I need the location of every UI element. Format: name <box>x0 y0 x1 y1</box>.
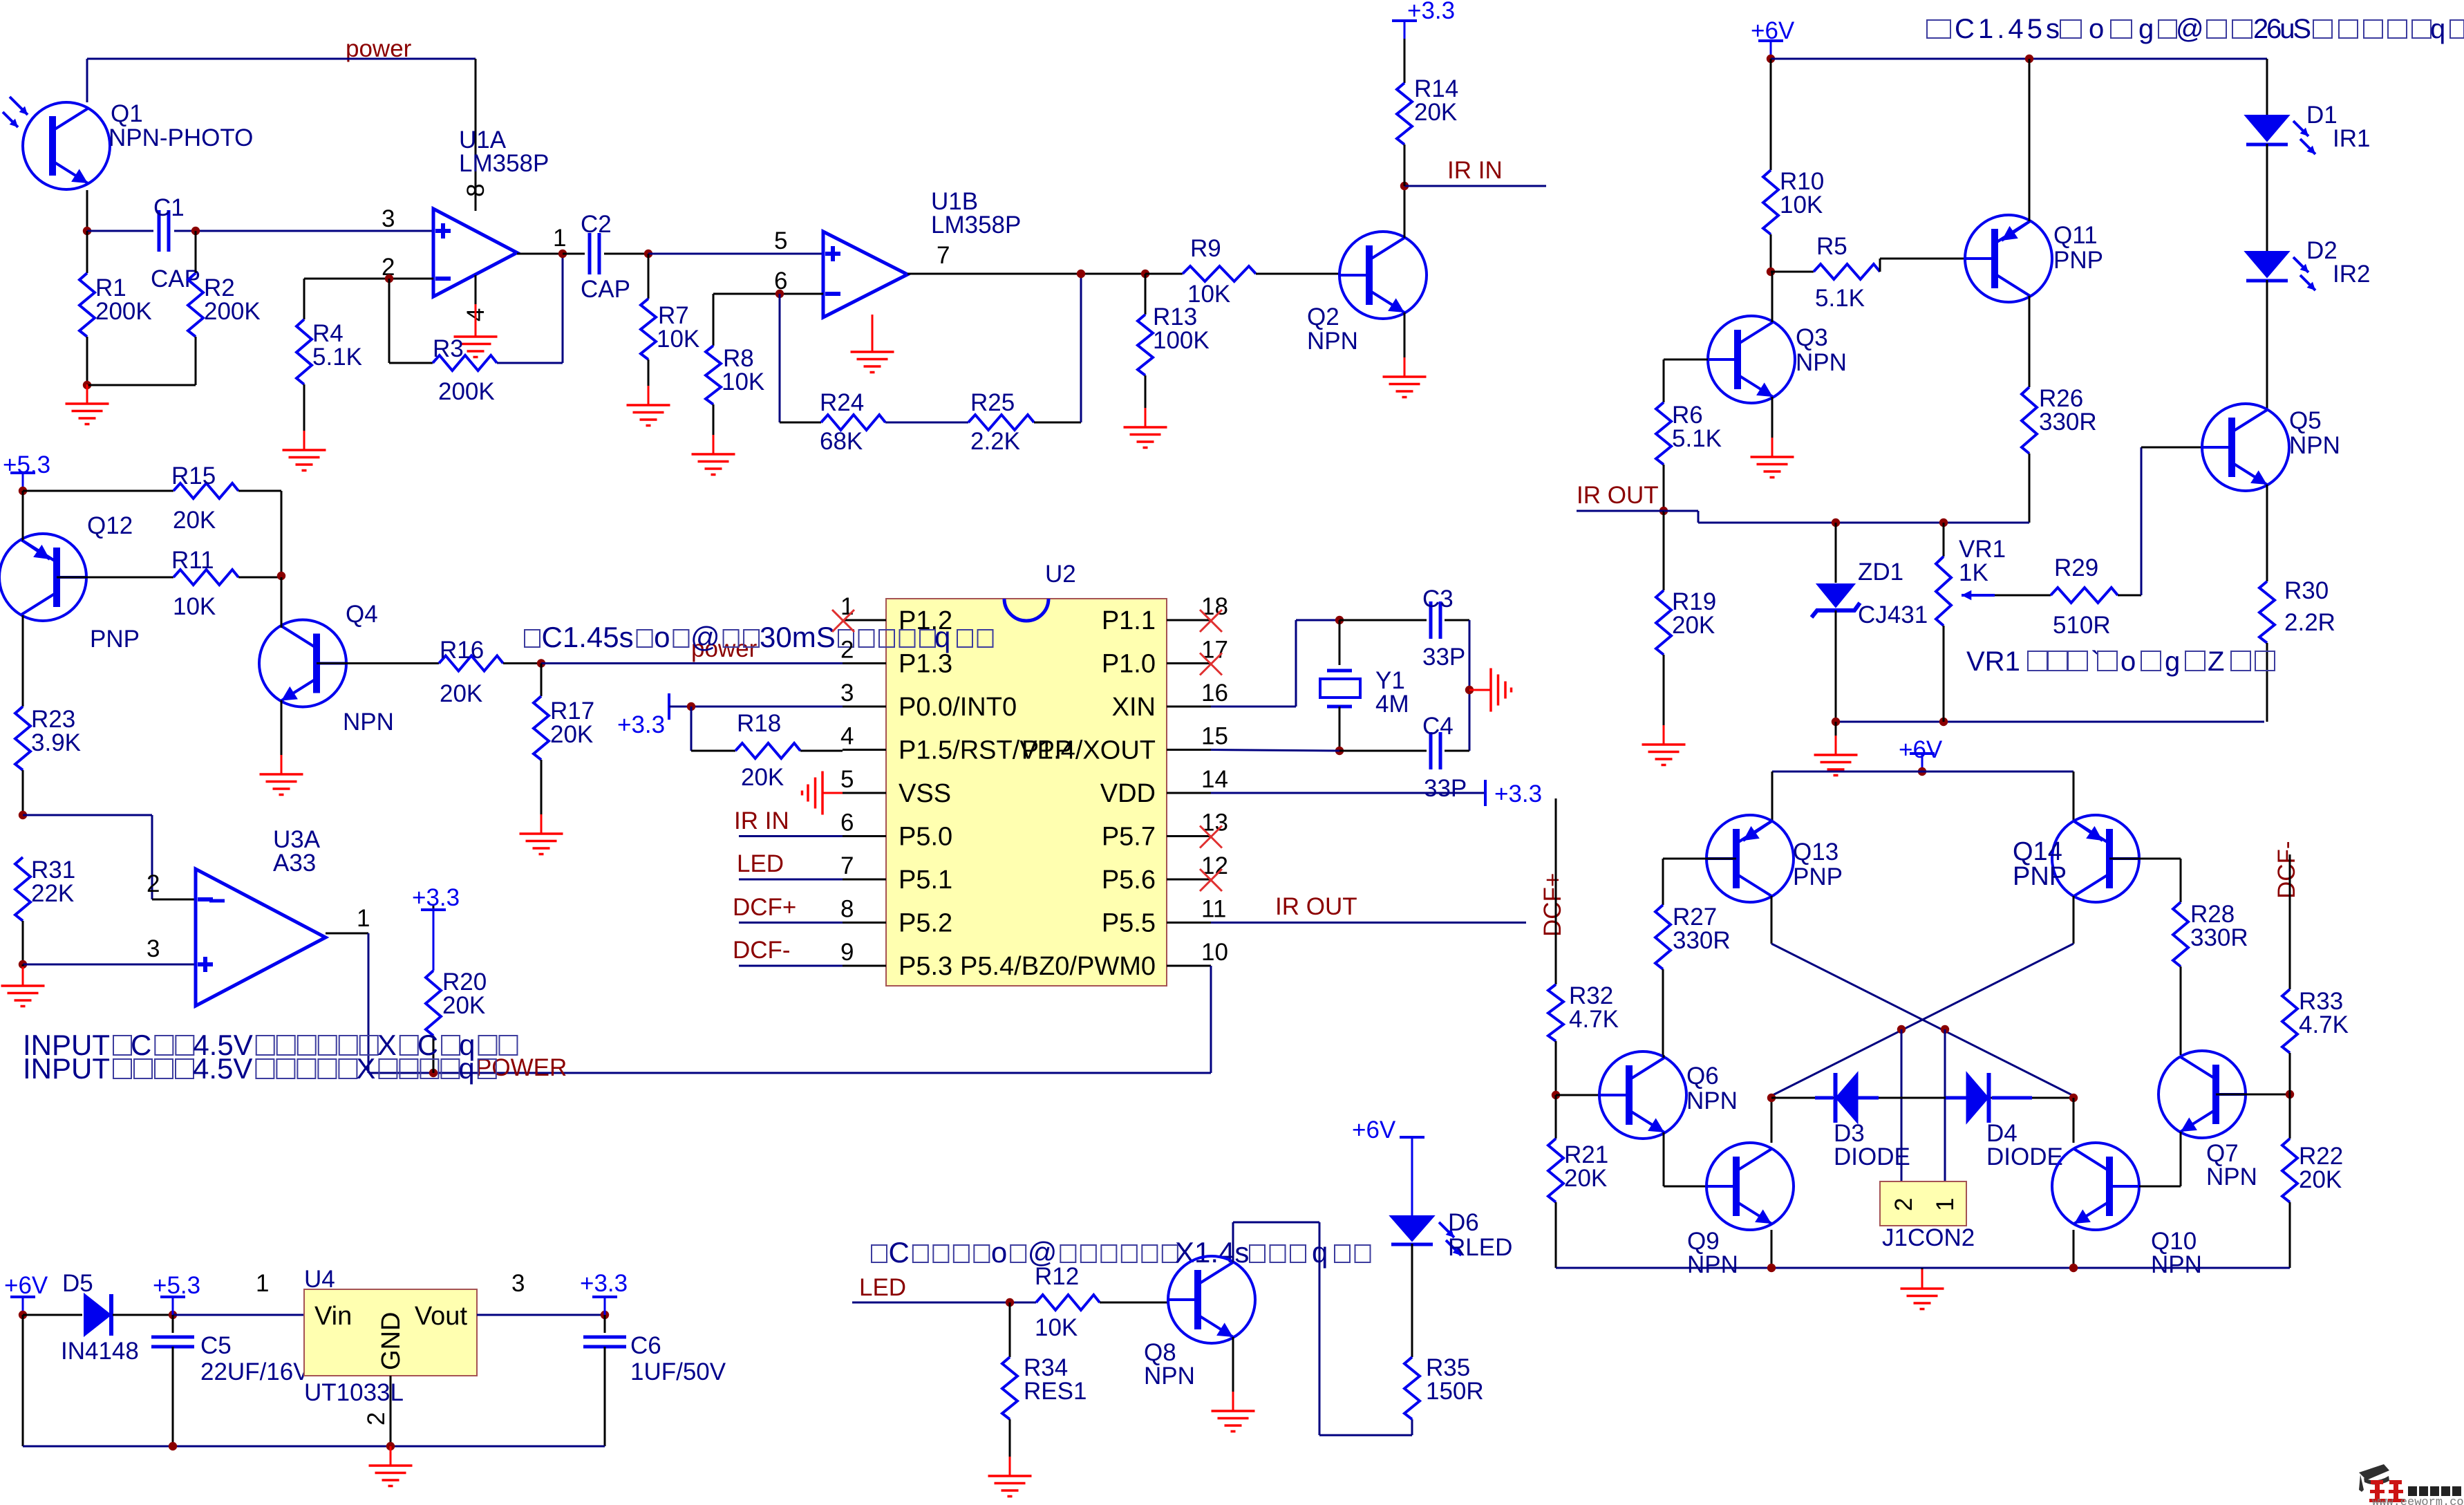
resistor R21 20K <box>1555 1095 1557 1139</box>
wire power rail top <box>87 58 476 60</box>
svg-text:R5: R5 <box>1816 233 1847 260</box>
wire +6V rail right <box>1771 58 2267 60</box>
wire Q12 emitter top <box>22 491 24 540</box>
pin 16 stub (U2 XIN) <box>1167 706 1211 708</box>
title text 3 (C...X1.4s) <box>872 1245 887 1262</box>
wire right rail down <box>1469 620 1471 751</box>
node C2-R7 <box>644 250 652 258</box>
svg-text:g: g <box>2138 14 2154 44</box>
LED D1 IR1 <box>2246 115 2289 141</box>
svg-text:Vin: Vin <box>314 1302 352 1331</box>
wire Q6 base <box>1556 1094 1599 1096</box>
ground below R13 <box>1145 375 1147 408</box>
resistor R4 5.1K <box>303 279 305 319</box>
svg-text:4.7K: 4.7K <box>1569 1006 1619 1033</box>
wire U1B output <box>907 273 1145 275</box>
resistor R7 10K <box>648 254 650 299</box>
svg-text:U4: U4 <box>304 1266 335 1293</box>
wire Q13 collector diagonal <box>1771 896 1773 944</box>
svg-text:A33: A33 <box>273 850 316 877</box>
svg-text:20K: 20K <box>173 507 216 534</box>
ground below R8 <box>713 404 715 435</box>
svg-text:20K: 20K <box>1564 1165 1607 1192</box>
watermark logo <box>2359 1464 2464 1505</box>
svg-text:20K: 20K <box>550 721 593 748</box>
resistor R10 10K <box>1770 59 1772 170</box>
resistor R34 RES1 <box>1009 1302 1011 1357</box>
node C1-R2 <box>191 227 200 235</box>
svg-text:R15: R15 <box>171 462 216 489</box>
op-amp U3A A33 <box>196 869 326 1006</box>
power port +5.3 psu <box>172 1297 174 1315</box>
resistor R22 20K <box>2289 1094 2291 1139</box>
IC U4 UT1033L body <box>304 1289 477 1376</box>
svg-text:11: 11 <box>1201 896 1226 923</box>
svg-text:NPN: NPN <box>1686 1087 1738 1114</box>
svg-text:LM358P: LM358P <box>931 212 1021 239</box>
op-amp U1A LM358P <box>433 209 517 297</box>
wire R27 to Q6 collector <box>1662 969 1664 1055</box>
svg-text:P5.2: P5.2 <box>899 909 952 938</box>
svg-text:+6V: +6V <box>1352 1116 1396 1143</box>
transistor Q2 NPN <box>1339 232 1427 319</box>
svg-text:IR IN: IR IN <box>734 807 789 834</box>
node ZD1 top <box>1832 518 1840 527</box>
wire R18 to pin4 <box>800 750 843 752</box>
svg-text:6: 6 <box>840 810 854 836</box>
resistor R12 10K <box>1036 1295 1100 1310</box>
wire power net to U2 pin2 <box>541 662 843 664</box>
node POWER-R20 <box>429 1069 438 1077</box>
zener ZD1 CJ431 <box>1835 523 1837 583</box>
svg-text:330R: 330R <box>2190 924 2248 951</box>
svg-text:Q2: Q2 <box>1307 303 1339 330</box>
svg-text:@: @ <box>2176 14 2204 44</box>
svg-text:X: X <box>356 1052 375 1085</box>
wire Q10 emitter <box>2073 1230 2075 1268</box>
node R16-R17-power <box>537 659 545 667</box>
svg-text:R18: R18 <box>737 710 781 737</box>
power port +5.3 <box>22 473 24 491</box>
wire U1A pin8 vertical <box>475 59 477 211</box>
svg-text:+3.3: +3.3 <box>1494 780 1542 807</box>
wire Q12 collector down <box>22 615 24 707</box>
node R3 feedback to -in <box>385 274 393 283</box>
ground below Q2 emitter <box>1404 312 1406 357</box>
node crystal top <box>1335 616 1344 624</box>
svg-text:PNP: PNP <box>1793 863 1843 890</box>
resistor R33 4.7K <box>2282 989 2297 1053</box>
pin 1 stub (U2 P1.2) <box>843 619 886 621</box>
svg-text:IR IN: IR IN <box>1447 157 1503 184</box>
ground below Q8 emitter <box>1232 1337 1234 1392</box>
svg-text:4: 4 <box>840 723 854 750</box>
svg-text:IR2: IR2 <box>2333 261 2370 288</box>
wire +5.3 rail to R15 <box>23 490 173 492</box>
resistor R27 330R <box>1655 905 1671 969</box>
svg-text:Q6: Q6 <box>1686 1063 1719 1090</box>
svg-text:10K: 10K <box>1035 1314 1078 1341</box>
svg-text:20K: 20K <box>440 680 482 707</box>
svg-text:+6V: +6V <box>1899 736 1943 763</box>
node crystal bottom <box>1335 747 1344 755</box>
resistor R19 20K <box>1663 511 1665 590</box>
wire DCF- to pin9 <box>739 965 843 967</box>
capacitor C2 <box>563 253 585 255</box>
ground below Q4 emitter <box>281 700 283 755</box>
wire Q9 collector to D3 row <box>1771 1098 1773 1143</box>
resistor R13 100K <box>1145 274 1147 315</box>
ground below R1 <box>86 384 88 404</box>
svg-text:2: 2 <box>363 1412 390 1425</box>
svg-text:5.1K: 5.1K <box>312 344 362 371</box>
node rail-Q11 <box>2025 55 2033 63</box>
wire LED net <box>852 1302 1036 1304</box>
node R31-gnd-pin3 <box>19 960 27 969</box>
svg-text:2: 2 <box>1890 1198 1917 1211</box>
node +5.3 psu <box>169 1311 177 1319</box>
wire R22 to bottom rail <box>2289 1202 2291 1268</box>
svg-text:P0.0/INT0: P0.0/INT0 <box>899 693 1017 722</box>
capacitor C5 22UF/16V <box>172 1315 174 1333</box>
svg-text:www.eeworm.com: www.eeworm.com <box>2372 1496 2464 1505</box>
no-connect X pin1 <box>832 610 854 632</box>
svg-text:LED: LED <box>859 1274 906 1301</box>
svg-text:LED: LED <box>737 850 784 877</box>
wire Q3 collector <box>1771 272 1774 322</box>
resistor R25 2.2K <box>968 415 1034 430</box>
ground mid (U1B pin area) <box>872 315 874 352</box>
wire psu bottom rail <box>22 1315 24 1446</box>
svg-text:UT1033L: UT1033L <box>304 1379 404 1406</box>
svg-text:Q12: Q12 <box>87 512 133 539</box>
wire Q4 base to R16 <box>317 662 439 664</box>
wire R11 to node <box>238 577 281 579</box>
svg-text:CAP: CAP <box>581 276 630 303</box>
pin 6 stub (U2 P5.0) <box>843 835 886 837</box>
resistor R3 200K feedback <box>388 279 391 363</box>
wire XIN to crystal <box>1211 706 1296 708</box>
resistor R30 2.2R <box>2259 581 2275 643</box>
title text 2 (C1.45s...30mS) <box>525 630 540 647</box>
power port +3.3 at pin14 VDD <box>1211 792 1485 794</box>
wire R31 to pin3 node <box>22 921 24 964</box>
svg-text:o: o <box>991 1236 1007 1269</box>
ground at pin5 VSS <box>822 792 843 794</box>
diode D5 IN4148 <box>84 1294 111 1336</box>
transistor Q9 NPN <box>1706 1143 1794 1230</box>
svg-text:C: C <box>131 1029 151 1061</box>
resistor R8 10K <box>713 294 715 346</box>
svg-text:P5.5: P5.5 <box>1102 909 1156 938</box>
svg-text:D6: D6 <box>1448 1209 1479 1236</box>
svg-text:+3.3: +3.3 <box>617 711 665 738</box>
power port +3.3 psu <box>604 1297 606 1315</box>
svg-text:330R: 330R <box>2039 409 2097 436</box>
svg-text:4M: 4M <box>1375 691 1409 718</box>
ground below R7 <box>648 359 650 386</box>
transistor Q10 NPN <box>2052 1143 2139 1230</box>
svg-text:R25: R25 <box>970 389 1015 416</box>
no-connect X pin12 <box>1200 869 1222 891</box>
svg-text:10K: 10K <box>173 593 216 620</box>
wire R29 to Q5 base <box>2118 595 2141 597</box>
svg-text:IN4148: IN4148 <box>61 1338 139 1365</box>
capacitor C6 1UF/50V <box>604 1315 606 1333</box>
wire bridge top rail <box>1772 771 2073 773</box>
node VR1 bottom <box>1939 718 1948 726</box>
transistor Q13 PNP <box>1706 815 1794 902</box>
node VR1 top <box>1939 518 1948 527</box>
svg-text:R12: R12 <box>1035 1263 1079 1290</box>
LED D6 RLED <box>1391 1216 1434 1241</box>
node U1A out <box>558 250 567 258</box>
svg-text:VDD: VDD <box>1100 779 1156 808</box>
svg-text:+6V: +6V <box>1751 17 1795 44</box>
node Q7 base R33 <box>2286 1090 2294 1099</box>
ground bridge <box>1921 1268 1924 1269</box>
svg-text:10K: 10K <box>722 368 764 395</box>
wire bridge bottom rail <box>1556 1267 2290 1269</box>
svg-text:1: 1 <box>256 1270 269 1297</box>
no-connect X pin13 <box>1200 826 1222 848</box>
svg-text:@: @ <box>690 621 720 653</box>
connector J1 CON2 body <box>1880 1181 1966 1226</box>
svg-text:o: o <box>2120 646 2136 677</box>
svg-text:C1: C1 <box>153 194 185 221</box>
resistor R26 330R <box>2022 387 2037 454</box>
power port +6V (psu) <box>22 1297 24 1315</box>
wire Q7 base to R33 node <box>2216 1094 2290 1096</box>
wire D5 to +5.3 node <box>113 1314 173 1316</box>
svg-text:R11: R11 <box>171 547 214 574</box>
svg-text:R29: R29 <box>2054 554 2098 581</box>
svg-text:3.9K: 3.9K <box>31 729 81 756</box>
svg-text:+5.3: +5.3 <box>153 1272 200 1299</box>
ground below R17 <box>540 760 543 814</box>
wire R26 to zener rail <box>2029 454 2031 523</box>
wire U3A output down to POWER rail <box>368 933 370 1073</box>
node U1B -in feedback <box>775 290 784 298</box>
wire R12 to Q8 base <box>1100 1302 1168 1304</box>
svg-text:P5.3: P5.3 <box>899 952 952 981</box>
wire R10 to node <box>1770 234 1772 272</box>
pin 17 stub (U2 P1.0) <box>1167 662 1211 664</box>
svg-text:100K: 100K <box>1153 327 1210 354</box>
wire node to U3A pin3 <box>23 964 196 966</box>
svg-text:150R: 150R <box>1426 1378 1484 1405</box>
resistor R32 4.7K <box>1548 984 1563 1041</box>
node U4 gnd bottom <box>386 1442 395 1450</box>
capacitor C1 <box>158 210 161 252</box>
node R23-R31-U3A <box>19 811 27 819</box>
svg-text:7: 7 <box>937 242 950 269</box>
wire R1 bottom to R2 bottom <box>87 384 196 386</box>
wire IR OUT stub <box>1577 510 1664 512</box>
wire R25 to output node <box>1034 422 1081 424</box>
svg-text:PNP: PNP <box>90 626 140 653</box>
svg-text:DCF+: DCF+ <box>1539 873 1566 937</box>
power port +6V bridge <box>1921 754 1924 772</box>
svg-text:NPN: NPN <box>2151 1251 2202 1278</box>
svg-text:R24: R24 <box>820 389 864 416</box>
wire DCF+ vertical <box>1555 798 1557 984</box>
svg-text:Q5: Q5 <box>2289 407 2322 434</box>
svg-text:VR1: VR1 <box>1966 646 2020 677</box>
svg-text:VSS: VSS <box>899 779 951 808</box>
transistor Q4 NPN <box>259 620 346 707</box>
svg-text:1: 1 <box>553 225 566 252</box>
svg-text:14: 14 <box>1201 766 1228 793</box>
wire zener top rail <box>1664 510 1698 512</box>
resistor R31 22K <box>15 857 30 921</box>
wire C2 to U1B pin5 <box>648 253 823 255</box>
svg-text:o: o <box>2089 14 2104 44</box>
svg-text:+3.3: +3.3 <box>580 1270 628 1297</box>
svg-text:+6V: +6V <box>4 1272 48 1299</box>
svg-text:NPN: NPN <box>2206 1163 2257 1190</box>
node +6V right <box>1767 55 1775 63</box>
svg-text:C6: C6 <box>630 1332 661 1359</box>
svg-text:P1.3: P1.3 <box>899 650 952 679</box>
pin 11 stub (U2 P5.5) <box>1167 922 1211 924</box>
node IR IN <box>1400 182 1409 190</box>
wire Q6 emitter to Q9 base <box>1663 1132 1665 1186</box>
svg-text:20K: 20K <box>741 764 784 791</box>
power port +3.3 at R20 <box>421 908 446 911</box>
svg-text:P5.1: P5.1 <box>899 866 952 895</box>
wire R21 to bottom rail <box>1555 1202 1557 1268</box>
svg-text:IR OUT: IR OUT <box>1275 893 1357 920</box>
wire LED to pin7 <box>739 879 843 881</box>
node Q9 emitter rail <box>1767 1264 1776 1272</box>
svg-text:C: C <box>417 1029 438 1061</box>
resistor R18 20K <box>735 743 800 758</box>
svg-text:26uS: 26uS <box>2253 14 2311 44</box>
svg-text:U2: U2 <box>1045 561 1076 588</box>
transistor Q7 NPN <box>2159 1051 2246 1138</box>
resistor R17 20K <box>540 664 543 697</box>
pin 14 stub (U2 VDD) <box>1167 792 1211 794</box>
wire node to U3A pin2 <box>23 814 152 816</box>
wire D6 to R35 <box>1411 1244 1413 1357</box>
node IR OUT <box>1659 507 1668 515</box>
node R10-R5-Q3 <box>1767 268 1775 276</box>
svg-text:1: 1 <box>357 905 370 932</box>
wire DCF+ to pin8 <box>739 922 843 924</box>
svg-text:q: q <box>458 1052 474 1085</box>
resistor R1 200K <box>86 231 88 273</box>
wire R18 branch down <box>690 707 693 751</box>
svg-text:4.7K: 4.7K <box>2299 1011 2349 1038</box>
wire R24 to R25 <box>885 422 968 424</box>
node output-R13 <box>1141 270 1149 278</box>
svg-text:q: q <box>2430 14 2445 44</box>
svg-text:7: 7 <box>840 852 854 879</box>
ground U1A pin4 <box>475 304 477 337</box>
svg-text:20K: 20K <box>442 992 485 1019</box>
svg-text:P5.4/BZ0/PWM0: P5.4/BZ0/PWM0 <box>960 952 1156 981</box>
svg-text:POWER: POWER <box>476 1054 567 1081</box>
node +6V bridge <box>1918 767 1926 776</box>
wire R9 node to resistor <box>1145 273 1183 275</box>
svg-text:200K: 200K <box>204 298 261 325</box>
svg-text:P1.1: P1.1 <box>1102 606 1156 635</box>
svg-text:5.1K: 5.1K <box>1815 285 1865 312</box>
transistor Q11 PNP <box>1965 215 2052 302</box>
svg-text:10K: 10K <box>1187 281 1230 308</box>
power port +3.3 top <box>1404 21 1406 39</box>
svg-text:Q13: Q13 <box>1793 839 1838 866</box>
resistor R9 10K <box>1183 266 1256 281</box>
svg-text:R3: R3 <box>433 335 464 362</box>
svg-text:PNP: PNP <box>2013 862 2067 891</box>
ground below R4 <box>303 384 305 431</box>
pin 12 stub (U2 P5.6) <box>1167 879 1211 881</box>
wire +3.3 to pin3 <box>669 706 843 708</box>
svg-text:+3.3: +3.3 <box>412 884 460 911</box>
svg-text:NPN: NPN <box>1796 349 1847 376</box>
svg-text:R30: R30 <box>2284 577 2329 604</box>
svg-text:IR1: IR1 <box>2333 125 2370 152</box>
node Q10 emitter rail <box>2069 1264 2078 1272</box>
pin 13 stub (U2 P5.7) <box>1167 835 1211 837</box>
wire D1 to D2 <box>2266 144 2268 252</box>
node +5.3 <box>19 487 27 495</box>
node R15-R11-Q4 <box>277 572 285 580</box>
wire VR1 wiper to R29 <box>1995 595 2051 597</box>
svg-text:9: 9 <box>840 939 854 966</box>
resistor R20 20K <box>433 906 435 971</box>
wire IR IN stub <box>1404 185 1546 187</box>
wire R16 to node <box>503 662 541 664</box>
svg-text:+3.3: +3.3 <box>1407 0 1455 24</box>
crystal Y1 4M <box>1339 620 1341 665</box>
pin 8 stub (U2 P5.2) <box>843 922 886 924</box>
wire zener bottom rail <box>1836 721 2264 723</box>
node LED-R34 <box>1006 1298 1014 1307</box>
node output-R25 <box>1077 270 1085 278</box>
svg-text:2.2R: 2.2R <box>2284 609 2335 636</box>
svg-text:8: 8 <box>462 184 489 197</box>
wire Q10 collector <box>2073 1098 2075 1143</box>
svg-text:1UF/50V: 1UF/50V <box>630 1358 726 1385</box>
svg-text:10: 10 <box>1201 939 1228 966</box>
power port +6V right <box>1770 41 1772 59</box>
wire R32 to Q6 base node <box>1555 1041 1557 1095</box>
pin 10 stub (U2 P5.4/BZ0/PWM0) <box>1167 965 1211 967</box>
svg-text:C2: C2 <box>581 211 612 238</box>
wire R23 to node <box>22 770 24 815</box>
svg-text:IR OUT: IR OUT <box>1577 482 1659 509</box>
wire J1 pin2 vertical <box>1901 1029 1903 1181</box>
svg-text:15: 15 <box>1201 723 1228 750</box>
ground below R19 <box>1663 655 1665 725</box>
wire Q2 collector up <box>1404 186 1406 238</box>
svg-text:3: 3 <box>147 935 160 962</box>
svg-text:LM358P: LM358P <box>459 150 549 177</box>
svg-text:DCF+: DCF+ <box>733 894 796 921</box>
capacitor C4 33P <box>1429 732 1433 769</box>
no-connect X pin18 <box>1200 610 1222 632</box>
title text 1 (C1.45s...26uS) <box>1927 20 1950 38</box>
resistor R15 20K <box>173 483 238 498</box>
resistor R5 5.1K <box>1771 271 1814 273</box>
svg-text:Q3: Q3 <box>1796 324 1828 351</box>
svg-text:XIN: XIN <box>1112 693 1156 722</box>
wire Q13 base to R27 <box>1663 858 1736 860</box>
wire rail down to D1 <box>2266 59 2268 115</box>
